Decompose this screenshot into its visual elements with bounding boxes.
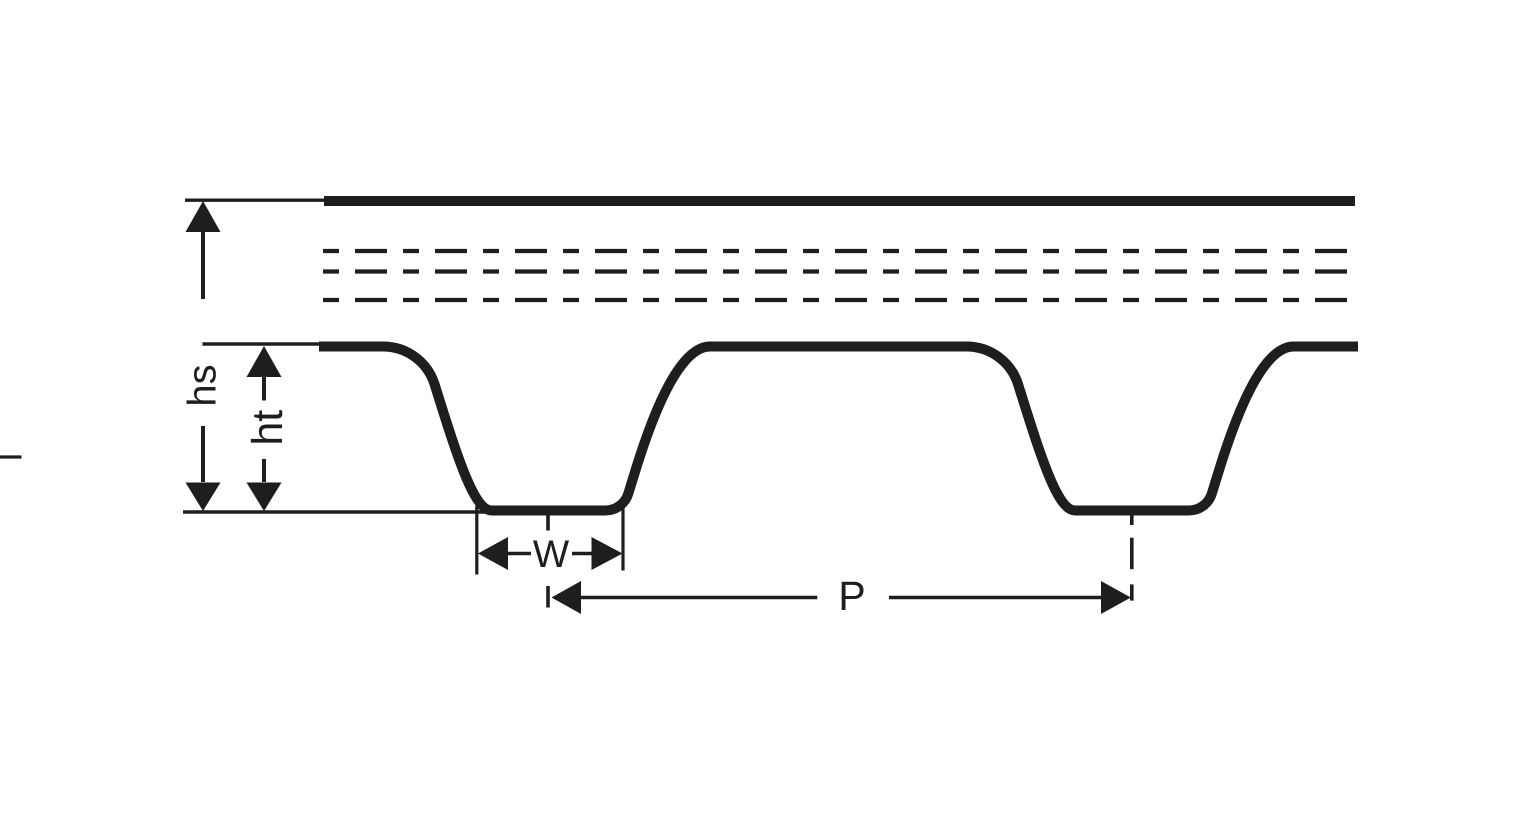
dimension P : right line	[889, 596, 1102, 600]
tooth 1 centerline tick at P line	[546, 586, 550, 608]
dimension P : left line	[580, 596, 817, 600]
dimension ht : arrow up head	[247, 346, 282, 377]
dimension hs : arrow up head	[186, 201, 221, 232]
belt back surface (thick top line)	[324, 196, 1355, 206]
dimension W : left arrow head	[478, 537, 508, 570]
label W	[533, 541, 569, 567]
dimension ht : arrow down head	[247, 483, 282, 512]
tension cord dash-dot row 2	[323, 269, 1347, 273]
left page-edge dash	[0, 455, 22, 458]
dimension P : right arrow head	[1101, 581, 1131, 614]
tooth 1 centerline dash below tooth	[546, 515, 550, 531]
tension cord dash-dot row 1	[323, 249, 1347, 253]
belt tooth profile (two teeth with lands)	[319, 346, 1358, 510]
tooth 2 centerline dash 1	[1130, 516, 1134, 526]
dimension ht : upper shaft	[262, 376, 266, 401]
dimension P : left arrow head	[552, 581, 582, 614]
dimension hs : lower shaft	[201, 426, 205, 482]
dimension hs : upper shaft	[201, 231, 205, 299]
dimension hs : arrow down head	[186, 483, 221, 512]
W extension line left	[475, 506, 478, 575]
W extension line right	[621, 502, 624, 571]
label ht (rotated)	[251, 410, 283, 443]
dimension W : right arrow head	[592, 537, 623, 570]
dimension ht : lower shaft	[262, 459, 266, 482]
label hs (rotated)	[187, 366, 216, 404]
top reference extension line (belt back surface)	[185, 198, 326, 201]
dimension W : right stub line	[572, 552, 592, 556]
tooth 2 centerline dash 3	[1130, 584, 1134, 600]
label P	[842, 582, 864, 610]
tension cord dash-dot row 3	[323, 298, 1347, 302]
dimension W : left stub line	[507, 552, 531, 556]
middle reference extension line (tooth root / land surface)	[203, 342, 320, 345]
bottom reference extension line (tooth tip surface)	[183, 510, 548, 513]
tooth 2 centerline dash 2	[1130, 538, 1134, 570]
